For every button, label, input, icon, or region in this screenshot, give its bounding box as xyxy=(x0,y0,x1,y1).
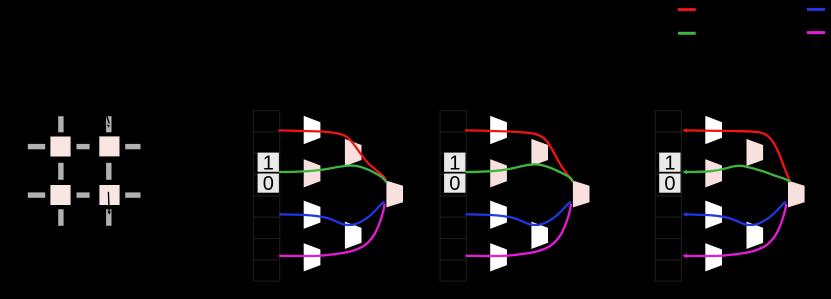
svg-text:1: 1 xyxy=(449,152,460,174)
mux T1L1 (level 1, row 1) xyxy=(303,115,321,145)
mux T3L2 (level 1, row 2) xyxy=(705,158,723,188)
SRAM config cell column T2 xyxy=(440,111,466,282)
legend swatch net1 green xyxy=(678,32,696,35)
mux T2L2 (level 1, row 2) xyxy=(490,158,508,188)
svg-text:(b): (b) xyxy=(322,283,338,298)
svg-text:(a) switch block: (a) switch block xyxy=(39,283,129,298)
svg-text:(c): (c) xyxy=(509,283,524,298)
switch S1 (top-left) xyxy=(50,136,71,157)
wire net3 magenta T2 xyxy=(467,205,571,256)
legend label net1 xyxy=(700,26,727,40)
SRAM config cell column T3 xyxy=(655,111,681,282)
mux T2F (final output mux) xyxy=(572,180,590,208)
caption (d) xyxy=(724,283,740,298)
caption (c) xyxy=(509,283,524,298)
legend swatch net0 red xyxy=(678,8,696,11)
mux T2M1 (level 2, top) xyxy=(531,138,549,167)
svg-text:0: 0 xyxy=(263,173,274,195)
mux T1L3 (level 1, row 3) xyxy=(303,200,321,230)
wire net2 blue T2 xyxy=(467,202,571,225)
caption (b) xyxy=(322,283,338,298)
legend swatch net3 magenta xyxy=(807,31,825,34)
wire net2 blue T3 xyxy=(682,202,785,225)
wire net3 magenta T3 xyxy=(682,205,786,258)
svg-text:(d): (d) xyxy=(724,283,740,298)
mux T2L4 (level 1, row 4) xyxy=(490,242,508,272)
config bit 1 box T3 xyxy=(659,152,680,174)
mux T3L3 (level 1, row 3) xyxy=(705,200,723,230)
svg-text:1: 1 xyxy=(664,152,675,174)
mux T1M2 (level 2, bottom) xyxy=(344,221,362,250)
svg-text:net 1: net 1 xyxy=(700,26,727,40)
legend swatch net2 blue xyxy=(807,8,825,11)
switch S4 (bottom-right) xyxy=(99,185,120,206)
mux T2M2 (level 2, bottom) xyxy=(531,221,549,250)
wire net2 blue T1 xyxy=(280,202,384,225)
arrow into switch S2 xyxy=(105,112,110,128)
config bit 0 box T2 xyxy=(444,173,465,195)
mux T3L4 (level 1, row 4) xyxy=(705,242,723,272)
svg-text:net 0: net 0 xyxy=(700,3,727,17)
mux T2L1 (level 1, row 1) xyxy=(490,115,508,145)
switch S3 (bottom-left) xyxy=(50,185,71,206)
wire net0 red T3 xyxy=(682,128,790,181)
wire net0 red T1 xyxy=(279,130,386,181)
mux T3F (final output mux) xyxy=(787,180,805,208)
wire net1 green T3 xyxy=(682,166,790,182)
legend label net0 xyxy=(700,3,727,17)
SRAM config cell column T1 xyxy=(254,111,280,282)
switch S2 (top-right) xyxy=(99,136,120,157)
mux T2L3 (level 1, row 3) xyxy=(490,200,508,230)
mux T1M1 (level 2, top) xyxy=(344,138,362,167)
config bit 0 box T3 xyxy=(659,173,680,195)
mux T3L1 (level 1, row 1) xyxy=(705,115,723,145)
wire output of mux T3F xyxy=(805,193,819,195)
wire net3 magenta T1 xyxy=(280,205,384,256)
mux T1F (final output mux) xyxy=(386,180,404,208)
wire track dashes (switch block grid) xyxy=(28,116,141,226)
mux T3M2 (level 2, bottom) xyxy=(746,221,764,250)
mux T3M1 (level 2, top) xyxy=(746,138,764,167)
wire net0 red T2 xyxy=(466,130,572,181)
arrow out of switch S4 xyxy=(107,192,111,215)
mux T1L4 (level 1, row 4) xyxy=(303,242,321,272)
config bit 0 box T1 xyxy=(258,173,279,195)
svg-text:0: 0 xyxy=(664,173,675,195)
mux T1L2 (level 1, row 2) xyxy=(303,158,321,188)
wire net1 green T2 xyxy=(467,164,573,181)
wire output of mux T2F xyxy=(590,193,604,195)
config bit 1 box T1 xyxy=(258,152,279,174)
caption (a) xyxy=(39,283,129,298)
svg-text:1: 1 xyxy=(263,152,274,174)
wire output of mux T1F xyxy=(404,193,418,195)
config bit 1 box T2 xyxy=(444,152,465,174)
wire net1 green T1 xyxy=(280,166,386,182)
svg-text:0: 0 xyxy=(449,173,460,195)
